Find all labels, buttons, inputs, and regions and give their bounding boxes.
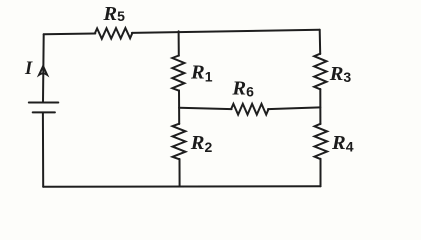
svg-text:R4: R4 [331, 132, 354, 154]
wire: right branch, segment between R3 and R4 [319, 89, 321, 124]
wire: left branch, upper segment [42, 34, 45, 101]
svg-text:I: I [24, 59, 33, 79]
wire: middle branch, top stub [178, 31, 180, 56]
wire: top rail, right segment [132, 30, 320, 33]
wire: bottom rail [43, 185, 320, 188]
resistor R3 [314, 54, 326, 90]
resistor R1 [172, 56, 184, 91]
current arrow for I [39, 66, 47, 75]
wire: right branch, top stub [319, 30, 322, 54]
svg-text:R6: R6 [231, 77, 254, 99]
battery cell: bottom plate [33, 111, 55, 113]
wire: top rail, left segment [44, 33, 96, 36]
svg-text:R1: R1 [190, 62, 213, 85]
resistor R2 [173, 124, 186, 160]
wire: right branch, bottom stub [320, 159, 322, 187]
wire: middle branch, segment between R1 and R2 [178, 90, 180, 124]
svg-text:R2: R2 [190, 132, 213, 155]
wire: middle horizontal, left segment (R1/R2 node to R6) [179, 108, 232, 109]
resistor R4 [315, 124, 328, 159]
svg-text:R3: R3 [329, 63, 352, 85]
wire: middle horizontal, right segment (R6 to R3/R4 node) [268, 107, 320, 109]
battery cell: top plate [29, 102, 59, 104]
wire: left branch, lower segment [42, 113, 44, 187]
wire: middle branch, bottom stub [179, 159, 181, 186]
svg-text:R5: R5 [102, 3, 125, 25]
resistor R6 [231, 104, 268, 115]
resistor R5 [95, 28, 133, 39]
